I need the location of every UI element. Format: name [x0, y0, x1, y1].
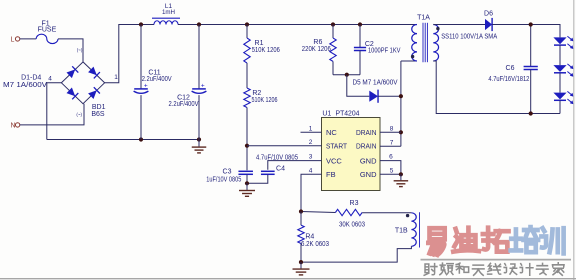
junction R6 top — [331, 22, 335, 26]
bridge diode D3 (top-right edge) — [88, 67, 97, 76]
junction R4 ground — [299, 260, 303, 264]
svg-text:PT4204: PT4204 — [336, 111, 360, 118]
svg-text:(~): (~) — [76, 112, 82, 117]
svg-text:510K 1206: 510K 1206 — [252, 47, 280, 54]
svg-text:C6: C6 — [506, 65, 515, 72]
junction R1 top — [245, 22, 249, 26]
svg-text:C3: C3 — [223, 169, 232, 176]
svg-text:4: 4 — [48, 75, 52, 82]
svg-text:4: 4 — [309, 167, 313, 174]
wire D6 to LED chain — [492, 25, 560, 38]
wire T1B bottom return to R4 ground — [301, 246, 411, 262]
T1A primary polarity dot — [411, 55, 414, 58]
wire bridge positive (pin 1) to top rail — [105, 25, 154, 83]
junction C11 top — [139, 22, 143, 26]
ground main (bottom rail) — [198, 140, 200, 147]
svg-text:U1: U1 — [322, 111, 331, 118]
wire R3 to T1B — [362, 212, 411, 214]
pin 2 START wire — [247, 145, 322, 147]
wire drain to primary bottom — [401, 60, 417, 62]
bridge diode D1 (left-bottom edge) — [67, 88, 76, 97]
junction C3 ground — [245, 181, 249, 185]
svg-text:1: 1 — [309, 125, 313, 132]
svg-text:NC: NC — [326, 128, 337, 137]
LED 3 — [553, 93, 566, 100]
svg-text:DRAIN: DRAIN — [356, 142, 377, 151]
junction C6 bottom — [529, 111, 533, 115]
wire fuse to bridge AC top — [58, 39, 83, 62]
ground U1 GND — [400, 174, 402, 180]
svg-text:2.2uF/400V: 2.2uF/400V — [169, 101, 199, 108]
pin 6 GND wire — [380, 161, 401, 175]
svg-text:1mH: 1mH — [162, 9, 175, 16]
svg-text:6.2K 0603: 6.2K 0603 — [301, 241, 329, 248]
svg-text:BD1: BD1 — [92, 104, 106, 111]
junction D5 / drain — [399, 94, 403, 98]
svg-text:T1A: T1A — [417, 15, 430, 22]
fuse F1 — [36, 34, 58, 43]
pin 4 FB wire — [301, 174, 322, 211]
svg-text:R6: R6 — [313, 39, 322, 46]
junction R2 / START / C3 — [245, 144, 249, 148]
pin 1 NC stub wire — [301, 131, 322, 133]
svg-text:4.7uF/10V 0805: 4.7uF/10V 0805 — [256, 155, 298, 162]
svg-text:+: + — [201, 82, 205, 89]
ground R4 — [300, 262, 302, 269]
svg-text:+: + — [144, 82, 148, 89]
pin 7 DRAIN wire — [380, 145, 401, 147]
resistor R6 220K 1206 — [332, 25, 334, 39]
capacitor C6 4.7uF/16V/1812 — [530, 25, 532, 67]
svg-text:5: 5 — [390, 167, 394, 174]
wire LED2 to LED3 — [559, 73, 561, 93]
svg-text:510K 1206: 510K 1206 — [252, 97, 278, 104]
svg-text:L: L — [11, 36, 15, 43]
svg-text:T1B: T1B — [395, 227, 408, 234]
svg-text:D6: D6 — [484, 10, 493, 17]
svg-text:(~): (~) — [77, 48, 83, 53]
svg-text:2: 2 — [309, 139, 313, 146]
transformer T1B core — [419, 212, 421, 247]
svg-text:30K 0603: 30K 0603 — [339, 222, 365, 229]
svg-text:DRAIN: DRAIN — [356, 128, 377, 137]
junction pin8 / drain — [399, 130, 403, 134]
inductor L1 1mH — [154, 21, 178, 25]
svg-text:1: 1 — [114, 74, 118, 81]
svg-text:7: 7 — [390, 139, 394, 146]
diode D5 M7 1A/600V — [347, 75, 370, 97]
bridge diode D4 (bottom-right edge) — [88, 90, 97, 99]
capacitor C4 4.7uF/10V 0805 — [261, 170, 275, 172]
bottom rail wire — [47, 139, 199, 141]
watermark divider line — [421, 259, 572, 261]
svg-text:B6S: B6S — [91, 111, 105, 118]
svg-text:VCC: VCC — [326, 156, 342, 165]
svg-text:6: 6 — [389, 154, 393, 161]
T1B polarity dot — [406, 214, 409, 217]
svg-text:SS110 100V/1A SMA: SS110 100V/1A SMA — [441, 33, 497, 40]
svg-text:220K 1206: 220K 1206 — [302, 46, 331, 53]
svg-text:R4: R4 — [305, 234, 314, 241]
transformer T1A core — [422, 23, 424, 62]
LED 1 — [553, 37, 566, 44]
capacitor C12 2.2uF/400V — [198, 25, 200, 89]
pin 3 VCC wire — [268, 161, 322, 170]
svg-text:C4: C4 — [276, 166, 285, 173]
resistor R4 6.2K 0603 — [300, 212, 302, 226]
ground C3/C4 — [246, 183, 248, 190]
svg-text:D1-D4: D1-D4 — [21, 75, 41, 82]
svg-text:1uF/10V 0805: 1uF/10V 0805 — [206, 177, 241, 184]
watermark slogan text (gray) — [424, 264, 437, 276]
svg-text:R2: R2 — [252, 90, 261, 97]
T1A secondary polarity dot — [436, 27, 439, 30]
wire N input to bridge AC bottom — [20, 104, 84, 125]
transformer T1A primary winding — [412, 25, 417, 62]
svg-text:N: N — [10, 123, 15, 130]
svg-text:2.2uF/400V: 2.2uF/400V — [142, 76, 172, 83]
svg-text:FUSE: FUSE — [38, 27, 57, 34]
wire bottom return to secondary — [433, 61, 560, 114]
capacitor C2 1000PF 1KV — [359, 25, 361, 48]
wire LED3 to bottom return — [559, 100, 561, 113]
wire R6 bottom to C2 bottom — [333, 74, 360, 76]
junction C12 top — [197, 22, 201, 26]
resistor R1 510K 1206 — [246, 25, 248, 39]
junction C2 top — [358, 22, 362, 26]
junction pin5 ground — [399, 172, 403, 176]
wire L input to fuse — [20, 38, 36, 40]
resistor R3 30K 0603 — [301, 212, 335, 213]
svg-text:FB: FB — [326, 170, 336, 179]
svg-text:R1: R1 — [255, 40, 264, 47]
svg-text:GND: GND — [360, 156, 377, 165]
svg-text:1000PF 1KV: 1000PF 1KV — [368, 48, 401, 55]
capacitor C11 2.2uF/400V — [140, 25, 142, 89]
wire LED1 to LED2 — [559, 45, 561, 65]
svg-text:GND: GND — [360, 170, 377, 179]
watermark logo text: yi di tuo (red) — [428, 228, 444, 255]
svg-text:8: 8 — [390, 125, 394, 132]
svg-text:D5 M7 1A/600V: D5 M7 1A/600V — [353, 80, 398, 87]
diode D6 SS110 100V/1A SMA — [485, 19, 492, 30]
junction FB / R3 / R4 — [299, 209, 303, 213]
svg-text:M7 1A/600V: M7 1A/600V — [3, 82, 47, 89]
transformer T1A secondary winding — [433, 25, 438, 62]
capacitor C3 1uF/10V 0805 — [238, 170, 253, 172]
junction bottom rail ground — [197, 137, 201, 141]
junction C6 top — [529, 22, 533, 26]
wire drain vertical — [400, 61, 402, 146]
transformer T1B winding — [411, 213, 416, 247]
pin 5 GND wire — [380, 173, 401, 175]
resistor R2 510K 1206 — [244, 88, 250, 108]
svg-text:4.7uF/16V/1812: 4.7uF/16V/1812 — [488, 76, 529, 83]
bridge rectifier BD1 B6S diamond — [61, 62, 104, 104]
junction C11 bottom — [139, 137, 143, 141]
LED 2 — [553, 65, 566, 72]
pin 8 DRAIN wire — [380, 131, 401, 133]
wire secondary top to D6 — [433, 24, 485, 26]
top rail wire — [178, 24, 417, 26]
svg-text:START: START — [326, 142, 347, 151]
svg-text:R3: R3 — [350, 200, 359, 207]
bridge diode D2 (left-top edge) — [67, 69, 76, 78]
svg-text:3: 3 — [309, 154, 313, 161]
junction snubber to D5 — [345, 73, 349, 77]
wire bridge negative (pin 4) to bottom rail — [47, 83, 62, 140]
op-amp U1 PT4204 (driver IC) — [322, 118, 381, 191]
